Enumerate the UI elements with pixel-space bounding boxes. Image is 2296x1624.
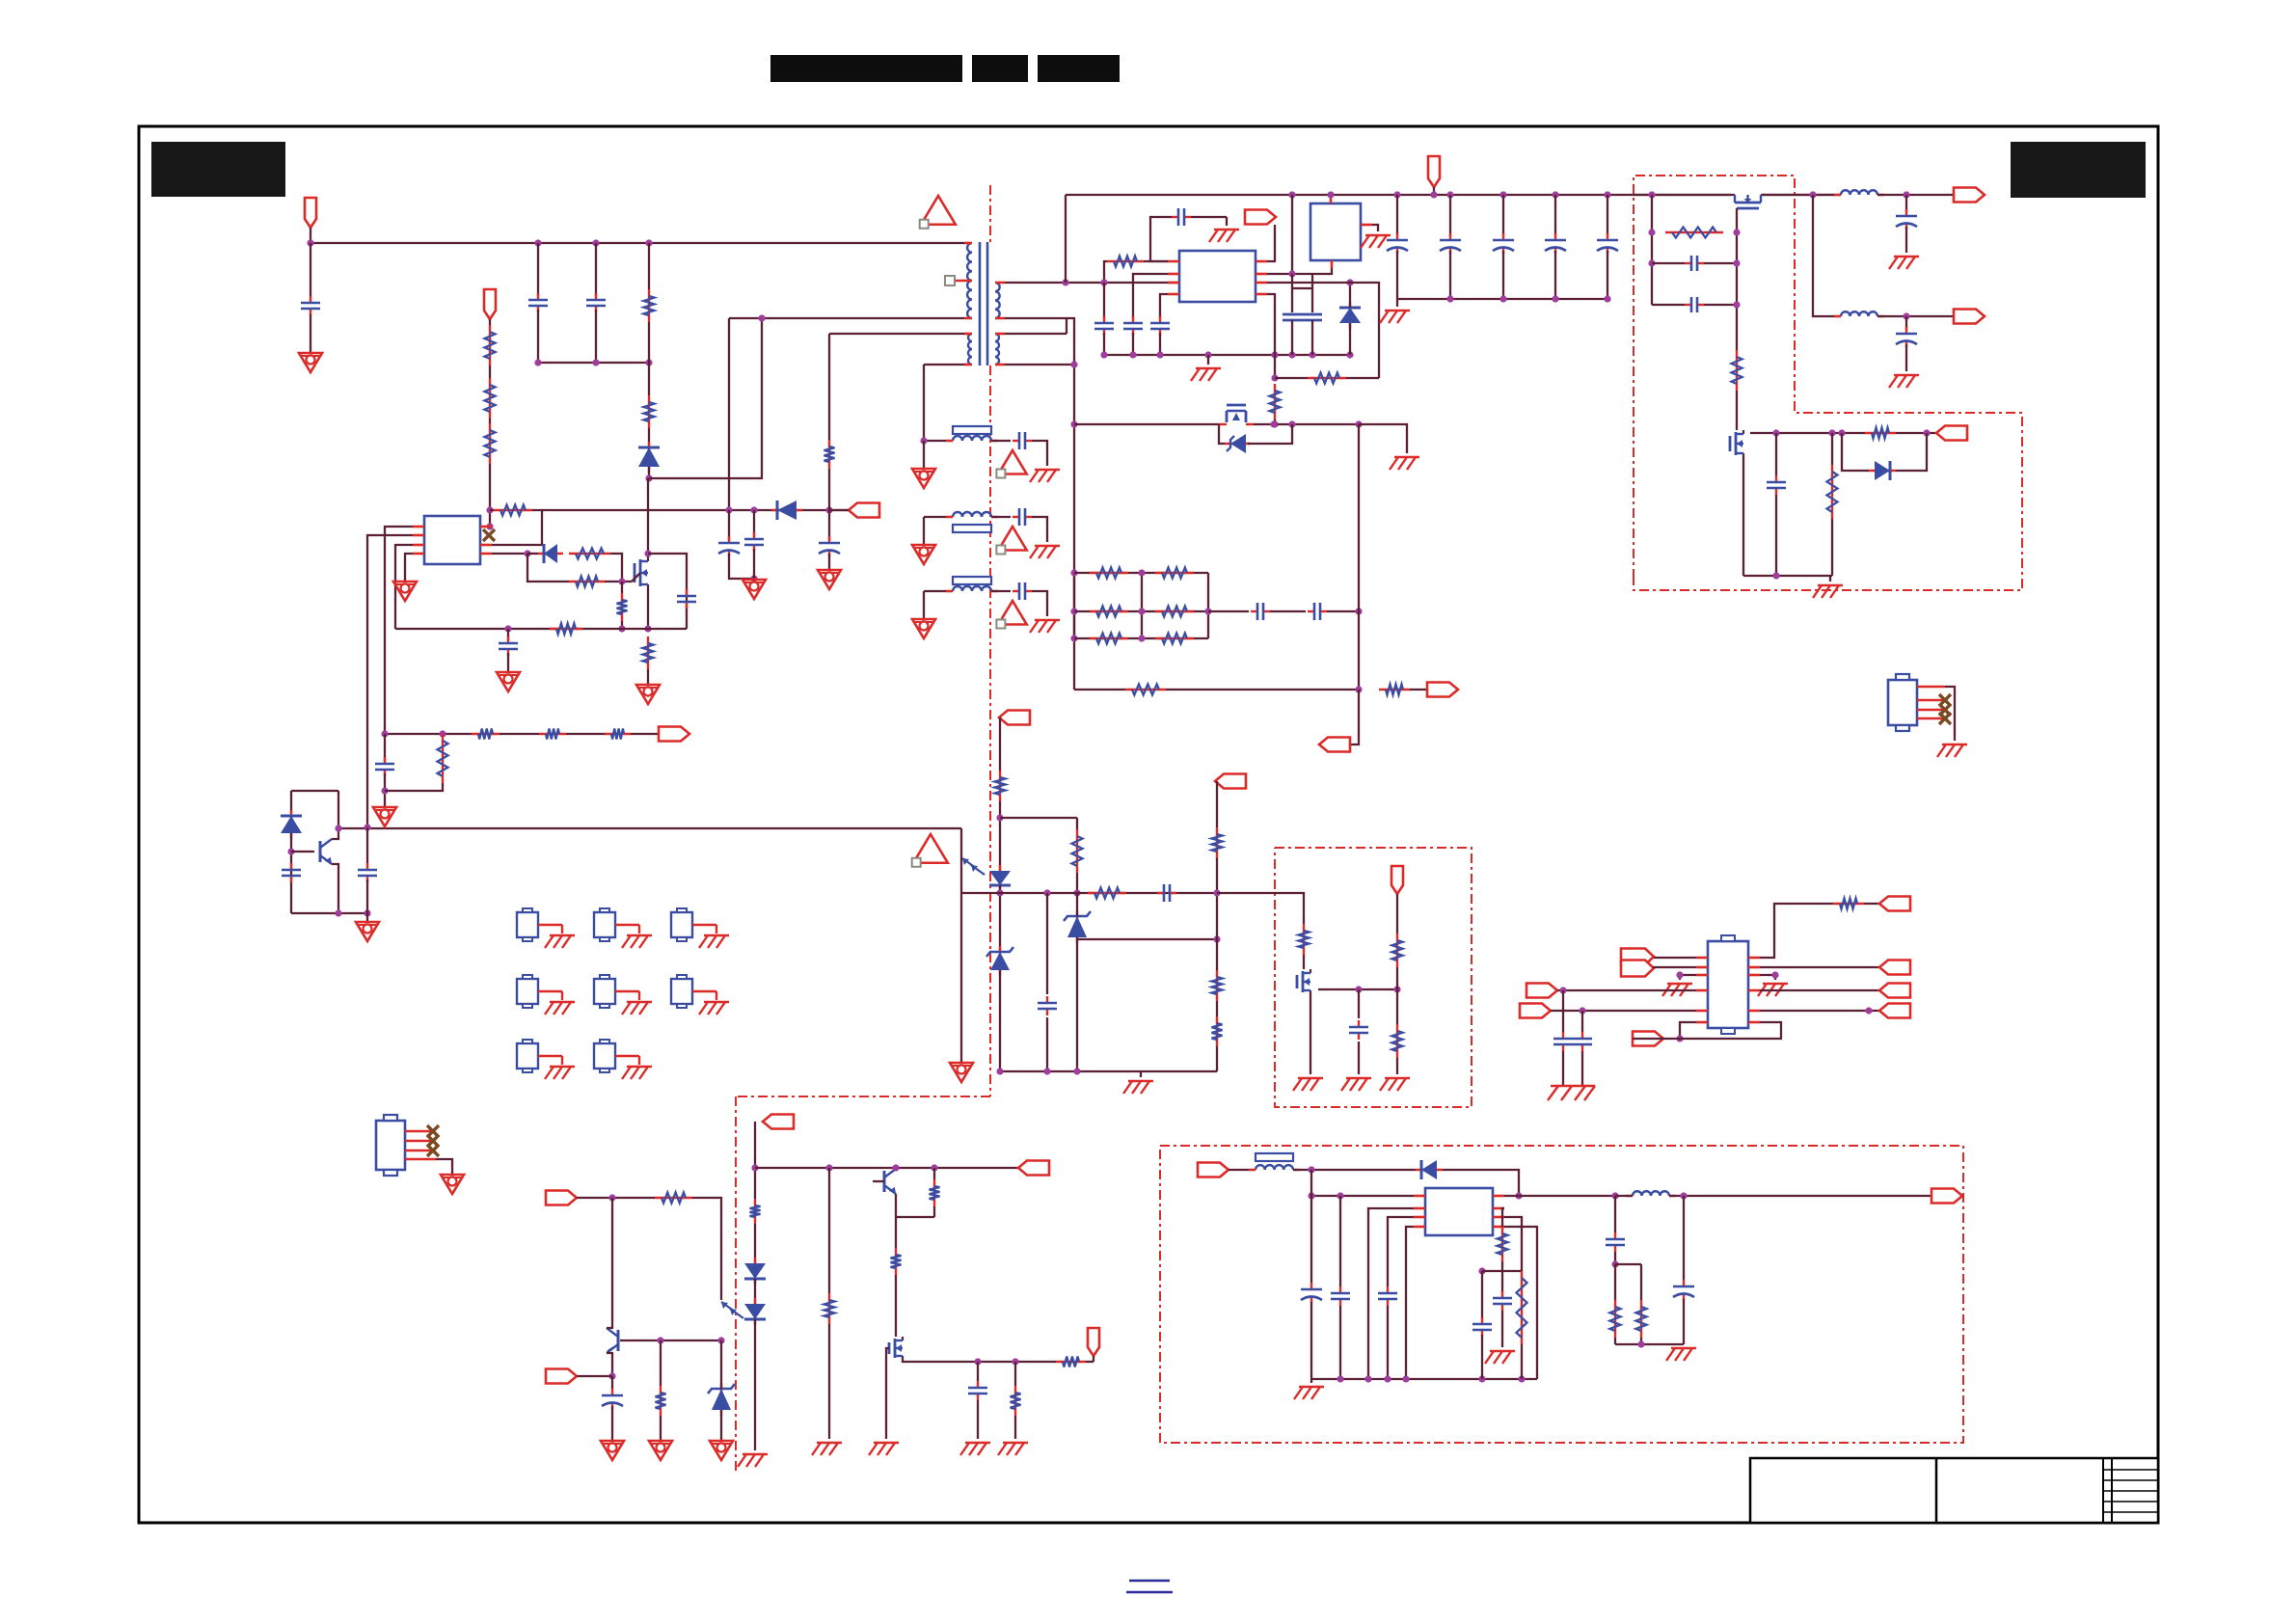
wire Q1 source bbox=[647, 588, 649, 629]
net flag U2 sig1 bbox=[1526, 984, 1557, 998]
chassis ground C-q6 bbox=[1341, 1078, 1371, 1091]
wire bjt loop top bbox=[291, 790, 338, 792]
wire fbnet cap col bbox=[1046, 893, 1048, 994]
optocoupler U6 LED bbox=[744, 1298, 766, 1325]
node bank cap3 top bbox=[1499, 191, 1506, 198]
tab U2 top bbox=[1721, 935, 1735, 941]
capacitor C-bank2 electrolytic bbox=[1440, 233, 1461, 254]
ground fb filter bbox=[373, 807, 396, 826]
wire buck vin col bbox=[1310, 1170, 1312, 1283]
node fbnet cap bbox=[1043, 889, 1050, 896]
resistor R-fb-net bbox=[1088, 888, 1126, 899]
net flag U2 out4 bbox=[1879, 1004, 1910, 1018]
pin marker T1 tap bbox=[945, 276, 955, 285]
node buck vin bbox=[1308, 1166, 1314, 1173]
resistor R-sync-fb bbox=[1308, 373, 1346, 384]
net flag feedback out bbox=[659, 727, 689, 742]
wire U2 r pin5 bbox=[1760, 1010, 1879, 1012]
wire bank cap2 bottom bbox=[1449, 251, 1451, 299]
wire sr col2 bbox=[828, 1324, 830, 1439]
transistor Q2 bbox=[320, 839, 332, 864]
transistor Q3 bbox=[607, 1328, 618, 1353]
wire fb par bottom bbox=[385, 783, 443, 791]
wire buck in bbox=[1229, 1169, 1256, 1171]
node sec top rail riser bbox=[1062, 279, 1068, 285]
pwm controller U1 bbox=[424, 516, 480, 564]
wire U4 to U3 pin2 bbox=[1267, 268, 1332, 274]
wire led col bbox=[999, 801, 1001, 871]
chassis ground fb rail bbox=[1123, 1081, 1153, 1094]
transformer T1 secondary winding upper bbox=[995, 283, 1005, 318]
net flag standby out bbox=[1018, 1161, 1049, 1176]
wire grid right col bbox=[1207, 573, 1209, 638]
wire C-U3-1 bottom bbox=[1103, 333, 1105, 355]
chassis ground R-q7b bbox=[998, 1443, 1028, 1455]
resistor R-fb3 bbox=[605, 729, 631, 740]
resistor R-box2b bbox=[1392, 1024, 1403, 1058]
power MOSFET Q1 bbox=[635, 557, 648, 588]
resistor R-q7out bbox=[1056, 1357, 1086, 1367]
output group box top-right bbox=[1634, 176, 2022, 590]
wire led bottom bbox=[999, 885, 1001, 952]
net flag comp bbox=[1319, 738, 1350, 752]
wire sec mid lead upper bbox=[1005, 317, 1067, 319]
inductor L-out1 bbox=[1834, 190, 1884, 195]
node q8 gnd cap bbox=[1772, 572, 1779, 579]
wire VCC cap2 branch bbox=[753, 510, 755, 536]
resistor R-grid-1b bbox=[1155, 568, 1194, 579]
wire U1 pin3 to CS net bbox=[395, 545, 413, 629]
wire c-switch-2 leads2 bbox=[1704, 304, 1737, 306]
wire Q4 body loop bbox=[1219, 424, 1225, 444]
wire bo tie bbox=[1615, 1263, 1641, 1265]
resistor R-sync-gs bbox=[1270, 384, 1281, 420]
wire gate bottom loop bbox=[527, 554, 569, 582]
wire out2 b bbox=[1877, 315, 1954, 317]
gate driver U4 bbox=[1310, 203, 1361, 260]
node U4 supply bbox=[1327, 191, 1334, 198]
chassis ground out1 bbox=[1889, 257, 1919, 269]
chassis ground U3 rail bbox=[1191, 368, 1221, 381]
resistor R-fb715b bbox=[1379, 685, 1410, 695]
wire snubber mid bbox=[648, 322, 650, 395]
node outflag bbox=[1430, 191, 1437, 198]
chassis ground TP1 bbox=[545, 935, 575, 948]
node snub l1 bbox=[1648, 229, 1655, 235]
wire comp right bbox=[1327, 610, 1359, 612]
transformer T1 secondary winding lower bbox=[995, 334, 1005, 365]
wire C-U3-3 bottom bbox=[1159, 333, 1161, 355]
wire sec bottom lead bbox=[1005, 364, 1074, 365]
node buckg 1458 bbox=[1402, 1375, 1409, 1382]
warning triangle EMI row2 bbox=[996, 527, 1026, 555]
load switch MOSFET Q5 bbox=[1731, 195, 1765, 208]
node buck out1 bbox=[1611, 1192, 1618, 1199]
wire flag U3 stem bbox=[1267, 225, 1275, 261]
capacitor C-big plates bbox=[1283, 314, 1322, 320]
chassis ground TP6 bbox=[699, 1002, 729, 1015]
capacitor C-buck3 bbox=[1378, 1286, 1397, 1306]
node primary bottom riser bbox=[758, 314, 765, 321]
no-connect X J3-4 bbox=[1939, 713, 1951, 724]
wire pin2 cap col a bbox=[1291, 274, 1293, 312]
node gndrail 2 bbox=[1129, 351, 1136, 358]
net flag FB drive bbox=[999, 711, 1030, 725]
wire out1 cap gnd bbox=[1905, 227, 1907, 253]
wire U3 pin4 drop bbox=[1267, 294, 1275, 378]
resistor R-led2 bbox=[750, 1199, 761, 1224]
resistor R-pg bbox=[1865, 428, 1896, 439]
wire fb net row bbox=[1000, 892, 1217, 894]
resistor R-vref bbox=[1212, 827, 1223, 858]
page note mark bbox=[1126, 1581, 1173, 1592]
wire fb row mid bbox=[1275, 377, 1308, 379]
capacitor C-comp2 bbox=[1308, 603, 1327, 620]
clear0 bbox=[0, 0, 1, 1]
capacitor C-pin2 bbox=[358, 863, 377, 882]
resistor R-q9 bbox=[930, 1179, 940, 1206]
node bjt base bbox=[287, 848, 294, 854]
wire snubber bus bbox=[538, 362, 649, 364]
resistor R-fb715 bbox=[1125, 685, 1166, 695]
node fb RC bbox=[439, 730, 446, 737]
wire sec mid tie bbox=[1066, 318, 1067, 334]
wire fb tie bbox=[1482, 1270, 1522, 1272]
chassis ground TP2 bbox=[622, 935, 652, 948]
diode D-led2a bbox=[744, 1258, 766, 1285]
wire out1 bbox=[1763, 194, 1841, 196]
ground EMI row2 bbox=[912, 545, 935, 564]
wire CS cap gnd bbox=[507, 653, 509, 672]
wire gate top row bbox=[527, 553, 538, 555]
resistor R-sr bbox=[824, 1293, 835, 1324]
node VCC cap2 bbox=[750, 506, 757, 513]
test point TP4 bbox=[517, 975, 562, 1008]
node snub l2 bbox=[1648, 259, 1655, 266]
node Q4 body diode bbox=[1288, 420, 1295, 427]
wire U7 fb2 bbox=[1504, 1217, 1522, 1271]
f7 bbox=[0, 0, 1, 1]
wire U2 cap2 col bbox=[1581, 1011, 1583, 1032]
no-connect X mark U1 pin bbox=[483, 529, 495, 541]
buck converter group box bottom bbox=[1160, 1146, 1963, 1443]
wire zref top bbox=[1076, 893, 1078, 916]
inductor L-EMI3 bbox=[946, 586, 998, 591]
wire div bottom bbox=[1216, 1046, 1218, 1071]
node U2 bottom bbox=[1676, 1035, 1683, 1042]
test point TP2 bbox=[594, 908, 639, 941]
node q7 o2 bbox=[1012, 1358, 1018, 1365]
wire U1 pin1 bus bbox=[385, 527, 413, 734]
wire out1 b bbox=[1877, 194, 1954, 196]
wire U2 r pin1 bbox=[1760, 904, 1833, 958]
resistor R-led bbox=[995, 771, 1006, 801]
wire opto collector bbox=[960, 828, 962, 1063]
resistor R-gate-2 bbox=[569, 577, 605, 587]
wire Q4 drain row bbox=[1254, 423, 1359, 425]
wire ob col bbox=[660, 1340, 662, 1386]
net flag 5V out bbox=[1931, 1189, 1962, 1204]
capacitor C-q7 bbox=[968, 1381, 987, 1400]
wire q7 out b bbox=[1086, 1361, 1094, 1363]
wire C-q8 top bbox=[1775, 433, 1777, 475]
wire aux column 2 bbox=[828, 469, 830, 540]
MOSFET Q8 bbox=[1730, 430, 1743, 457]
wire q7 gate bbox=[886, 1348, 889, 1439]
wire EMI row1 drop bbox=[923, 441, 925, 468]
no-connect X J2-2 bbox=[427, 1135, 439, 1147]
node vref fb bbox=[1213, 889, 1220, 896]
wire pin2 cap col b bbox=[1311, 274, 1313, 312]
wire R-q8 bottom bbox=[1831, 519, 1833, 576]
chassis ground EMI row3 bbox=[1030, 620, 1060, 633]
chassis ground U2 left bbox=[1662, 984, 1692, 996]
wire boot cap right bbox=[1191, 216, 1227, 218]
wire pg diode loop right bbox=[1896, 433, 1927, 471]
capacitor C-bank1 electrolytic bbox=[1387, 233, 1408, 254]
wire Q2 emitter bbox=[332, 864, 338, 913]
wire sec mid lead lower bbox=[1005, 333, 1067, 335]
node q8 d3 bbox=[1838, 429, 1845, 436]
wire EMI row2 left bbox=[924, 516, 953, 518]
pin stub U4 top bbox=[1330, 195, 1333, 203]
net flag sense out bbox=[1427, 683, 1458, 697]
wire U2 bottom row bbox=[1633, 1038, 1680, 1040]
ground EMI row1 bbox=[912, 469, 935, 488]
wire EMI row1 left bbox=[924, 440, 953, 442]
wire Q8 gnd row bbox=[1743, 575, 1832, 577]
wire q9 base row bbox=[873, 1180, 884, 1182]
node grid mid 2 bbox=[1138, 608, 1145, 614]
capacitor C-U3-3 bbox=[1150, 316, 1170, 336]
wire switch gate col bbox=[1736, 208, 1738, 350]
ground R-ob bbox=[649, 1441, 672, 1460]
resistor R-onoff bbox=[655, 1193, 692, 1204]
wire U7 pin4 col bbox=[1406, 1227, 1414, 1379]
chassis ground buck bbox=[1294, 1387, 1324, 1399]
wire led bias top bbox=[1000, 817, 1077, 819]
chassis ground TP5 bbox=[622, 1002, 652, 1015]
wire bank cap5 top bbox=[1607, 195, 1608, 236]
wire c-switch-2 leads bbox=[1652, 304, 1685, 306]
wire ref row bbox=[1077, 938, 1217, 940]
wire EMI row2 drop bbox=[923, 517, 925, 544]
wire EMI row3 left bbox=[924, 590, 953, 592]
wire opto2 base row bbox=[620, 1340, 721, 1341]
resistor R-snubber-2 bbox=[644, 395, 655, 428]
wire q7 r col2 bbox=[1014, 1416, 1016, 1439]
net flag U2 out3 bbox=[1879, 984, 1910, 998]
capacitor C1 bbox=[301, 296, 320, 315]
node drive line collector bbox=[335, 825, 341, 831]
wire snub left col bbox=[1651, 195, 1653, 305]
title block outline bbox=[1750, 1458, 2158, 1523]
wire fb loop right bbox=[492, 510, 542, 545]
wire out row3 bbox=[1669, 1195, 1931, 1197]
wire Q8 drain row bbox=[1750, 432, 1865, 434]
node bo mid bbox=[1611, 1260, 1618, 1267]
wire pin2 bus lower bbox=[366, 827, 368, 866]
net flag U2 sig2 bbox=[1520, 1004, 1551, 1018]
resistor R-ob bbox=[656, 1386, 666, 1416]
resistor R-sense bbox=[643, 636, 654, 669]
redacted title bar 3 bbox=[1038, 55, 1120, 82]
capacitor C-drain bbox=[677, 589, 696, 609]
wire q9 emitter bbox=[895, 1194, 897, 1217]
wire buck in3 bbox=[1443, 1170, 1519, 1196]
node buckg 1419 bbox=[1364, 1375, 1371, 1382]
wire onoff2 row bbox=[577, 1375, 612, 1377]
capacitor C-U2a bbox=[1553, 1032, 1573, 1051]
wire onoff corner bbox=[692, 1198, 721, 1300]
transformer T1 primary tap mark bbox=[955, 280, 972, 283]
f12 bbox=[0, 0, 1, 1]
wire out2 cap bbox=[1905, 316, 1907, 330]
ground onoff cap bbox=[601, 1441, 624, 1460]
net flag power good bbox=[1936, 426, 1967, 441]
wire startup chain 1 bbox=[489, 365, 491, 378]
node EMI row1 bbox=[920, 437, 927, 444]
resistor R-dis bbox=[1299, 924, 1310, 955]
node snub left bbox=[1648, 191, 1655, 198]
capacitor C-bank3 electrolytic bbox=[1493, 233, 1514, 254]
wire U1 drive pin bbox=[492, 553, 527, 555]
resistor R-aux bbox=[824, 440, 835, 469]
node sg3 bbox=[1733, 301, 1740, 308]
wire bo gstub bbox=[1683, 1343, 1685, 1345]
wire cap col a bottom bbox=[1291, 320, 1293, 355]
chassis ground EMI row2 bbox=[1030, 546, 1060, 558]
node gndrail 5 bbox=[1288, 351, 1295, 358]
wire fb cap lower bbox=[384, 773, 386, 807]
node out1 cap bbox=[1903, 191, 1909, 198]
resistor R-fb-par bbox=[438, 734, 448, 783]
wire bank cap3 top bbox=[1502, 195, 1504, 236]
node sg1 bbox=[1733, 229, 1740, 235]
chassis ground sr bbox=[812, 1443, 842, 1455]
isolation boundary horizontal segment bbox=[736, 1096, 990, 1097]
node snubber bus C3 bbox=[592, 359, 599, 365]
node ob2 bbox=[717, 1337, 724, 1343]
resistor R-fb1 bbox=[472, 729, 500, 740]
schematic border frame bbox=[139, 126, 2158, 1523]
resistor R-bo2 bbox=[1636, 1300, 1647, 1338]
node grid r1 bbox=[1070, 569, 1077, 576]
node bo rail1 bbox=[1637, 1340, 1644, 1347]
node buck fb bbox=[1478, 1267, 1485, 1274]
wire grid bus bbox=[1073, 573, 1075, 638]
fix ffd bbox=[0, 0, 1, 1]
power flag HV input bbox=[305, 198, 316, 228]
wire flag to R chain bbox=[489, 319, 491, 325]
ground pin2 bus bbox=[356, 922, 379, 941]
wire U2 pin2 bbox=[1653, 966, 1696, 968]
wire bo r1b bbox=[1614, 1338, 1616, 1344]
capacitor C-fb bbox=[375, 757, 394, 776]
wire out2 cap gnd bbox=[1905, 344, 1907, 371]
pin stubs U7 left bbox=[1414, 1196, 1425, 1227]
supervisor U2 bbox=[1708, 941, 1748, 1028]
no-connect X J2-3 bbox=[427, 1145, 439, 1156]
f10 bbox=[0, 0, 1, 1]
capacitor C-buck5 bbox=[1472, 1317, 1492, 1337]
node gndrail 6 bbox=[1309, 351, 1315, 358]
wire sync to comb bbox=[1359, 424, 1407, 453]
wire comp col bbox=[1358, 424, 1360, 690]
net flag U2 out1 bbox=[1879, 897, 1910, 911]
MOSFET Q6 discharge bbox=[1297, 969, 1310, 994]
node q3 emitter bbox=[608, 1372, 615, 1379]
wire secondary output rail bbox=[1066, 194, 1731, 196]
node buckg 1578 bbox=[1518, 1375, 1525, 1382]
node bank rail 2 bbox=[1499, 295, 1506, 302]
wire U3 pin3 row bbox=[1267, 283, 1379, 378]
chassis ground bank bbox=[1380, 311, 1410, 323]
wire HV bulk rail bbox=[311, 242, 964, 244]
wire primary bottom lead bbox=[729, 317, 964, 319]
wire pin1 bus lower bbox=[384, 734, 386, 761]
wire q6 cap col2 bbox=[1358, 1042, 1360, 1074]
capacitor C-q8 bbox=[1767, 475, 1786, 495]
inductor L-buck-in bbox=[1249, 1165, 1300, 1170]
wire aux column bbox=[828, 334, 830, 440]
zener Z-ob bbox=[708, 1383, 735, 1416]
wire Q1 gate bbox=[632, 573, 640, 582]
wire boot rail col bbox=[1291, 195, 1293, 274]
node q6 flag col bbox=[1393, 986, 1400, 992]
test point TP6 bbox=[671, 975, 716, 1008]
wire U3 pin2 col bbox=[1133, 274, 1168, 319]
fix flag pg bbox=[0, 0, 1, 1]
f4 bbox=[0, 0, 1, 1]
capacitor C-boot bbox=[1172, 208, 1191, 226]
resistor R-U3 vdd bbox=[1107, 257, 1144, 267]
wire q7 r col bbox=[1014, 1362, 1016, 1386]
wire C3 to bus bbox=[595, 310, 597, 363]
resistor R-div1 bbox=[1212, 970, 1223, 1001]
isolation boundary mid segment bbox=[989, 365, 991, 1096]
wire buck ra low2 bbox=[1501, 1311, 1503, 1347]
chassis ground U2 right bbox=[1758, 984, 1788, 996]
wire out row2 bbox=[1615, 1195, 1633, 1197]
wire C-U3-2 bottom bbox=[1132, 333, 1134, 355]
capacitor C-aux electrolytic bbox=[819, 536, 840, 556]
wire pin2 cap gnd bbox=[366, 880, 368, 922]
wire secondary top lead bbox=[1005, 282, 1179, 284]
node sync gate tap bbox=[1070, 420, 1077, 427]
capacitor C2 bbox=[528, 293, 548, 312]
tab U2 bottom bbox=[1721, 1028, 1735, 1034]
wire CS cap drop bbox=[507, 629, 509, 640]
node onoff split bbox=[608, 1194, 615, 1201]
net flag VREF bbox=[1215, 774, 1246, 789]
wire led2 col top bbox=[754, 1122, 756, 1199]
resistor R-q7b bbox=[1011, 1386, 1021, 1416]
wire rail to C1 bbox=[310, 243, 311, 297]
wire pulldown ends bbox=[621, 582, 623, 593]
pin stubs J2 bbox=[405, 1131, 436, 1159]
wire rb low bbox=[1521, 1344, 1523, 1379]
wire rail to C2 bbox=[537, 243, 539, 296]
power flag startup supply bbox=[484, 289, 496, 319]
net flag U3 enable bbox=[1245, 210, 1276, 225]
capacitor C-VCC2 bbox=[744, 532, 764, 552]
node q8 d2 bbox=[1828, 429, 1835, 436]
wire secondary rail after Q5 bbox=[1763, 194, 1841, 196]
inductor L-EMI2 bbox=[946, 512, 998, 517]
node grid r3 bbox=[1070, 635, 1077, 641]
resistor R-snubber-1 bbox=[644, 289, 655, 322]
